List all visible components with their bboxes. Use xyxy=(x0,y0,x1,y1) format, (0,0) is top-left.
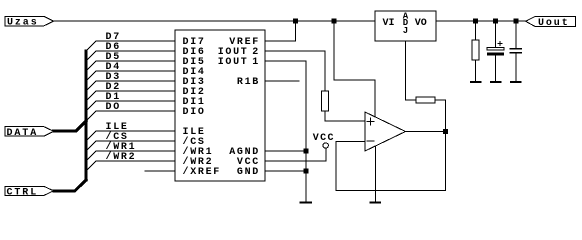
svg-text:Uout: Uout xyxy=(538,18,570,29)
svg-text:Uzas: Uzas xyxy=(7,18,39,29)
svg-text:R1B: R1B xyxy=(237,77,260,88)
svg-text:DO: DO xyxy=(106,102,121,113)
svg-text:/WR2: /WR2 xyxy=(106,151,137,163)
svg-text:DATA: DATA xyxy=(7,128,39,139)
svg-text:CTRL: CTRL xyxy=(7,187,39,198)
svg-text:IOUT: IOUT xyxy=(218,57,249,68)
svg-text:/XREF: /XREF xyxy=(183,166,222,178)
svg-text:VCC: VCC xyxy=(313,133,335,144)
svg-text:DIO: DIO xyxy=(183,107,206,118)
svg-text:1: 1 xyxy=(252,57,260,68)
svg-text:J: J xyxy=(403,26,408,36)
svg-text:GND: GND xyxy=(237,167,260,178)
svg-text:VI: VI xyxy=(383,18,395,29)
svg-text:VO: VO xyxy=(415,18,427,29)
